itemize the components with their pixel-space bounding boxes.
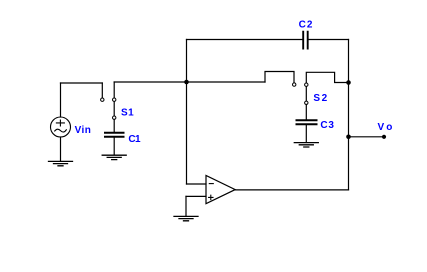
ground under C1 — [102, 155, 126, 159]
switch S2 bottom terminal circle — [305, 101, 308, 104]
ground under Vin — [49, 161, 73, 165]
wire S2 left throw jog — [265, 72, 294, 83]
switch S1 top terminal circle — [113, 98, 116, 101]
voltage source Vin plus sign — [56, 120, 64, 126]
wire left rail to op-amp inverting input — [186, 40, 188, 185]
capacitor C2 plates — [303, 32, 308, 49]
wire non-inverting input to ground — [185, 196, 187, 216]
wire C1 to ground — [113, 138, 115, 155]
wire S1 top stub — [113, 82, 115, 98]
op-amp minus sign — [209, 183, 213, 185]
svg-text:Vo: Vo — [378, 122, 393, 133]
switch S1 left throw terminal circle — [101, 98, 104, 101]
wire Vin top lead up — [60, 83, 62, 117]
junction dot S2 to right rail — [346, 80, 351, 85]
capacitor C3 plates — [297, 120, 317, 124]
svg-text:C3: C3 — [320, 120, 334, 131]
wire S2 pole to right rail jog — [306, 72, 348, 83]
wire non-inverting input — [186, 195, 206, 197]
wire Vin bottom lead — [60, 137, 62, 161]
op-amp plus sign — [209, 195, 213, 199]
voltage source Vin sine wave — [55, 129, 67, 132]
svg-text:Vin: Vin — [75, 125, 91, 136]
wire right rail down to op-amp output — [348, 40, 350, 190]
wire C3 to ground — [305, 125, 307, 142]
switch S1 bottom terminal circle — [113, 116, 116, 119]
junction dot output node to Vo — [346, 135, 351, 140]
ground under op-amp — [174, 216, 198, 220]
terminal dot Vo — [382, 135, 386, 139]
wire S1 to C1 — [113, 119, 115, 131]
wire top rail right segment from C2 — [308, 39, 348, 41]
wire top rail left segment to C2 — [187, 39, 303, 41]
wire inverting input — [187, 183, 207, 185]
wire output node to Vo terminal — [349, 136, 385, 138]
svg-text:C2: C2 — [299, 19, 313, 30]
switch S1 blade between terminals — [113, 101, 115, 116]
wire horizontal from S1 through node to S2 throw — [114, 81, 265, 83]
wire S1 left throw drop — [101, 83, 103, 98]
wire Vin to S1 left throw horizontal — [61, 82, 103, 84]
svg-text:C1: C1 — [128, 134, 141, 145]
voltage source Vin body circle — [51, 117, 71, 137]
svg-text:S1: S1 — [121, 108, 134, 119]
junction dot at inverting input node — [184, 80, 189, 85]
svg-text:S2: S2 — [313, 93, 327, 104]
wire S2 to C3 — [305, 105, 307, 120]
switch S2 blade between terminals — [305, 86, 307, 101]
switch S2 left throw terminal circle — [293, 83, 296, 86]
op-amp U1 triangle — [206, 175, 235, 203]
ground under C3 — [294, 143, 318, 147]
wire op-amp output to right rail — [235, 189, 348, 191]
capacitor C1 plates — [105, 133, 124, 137]
switch S2 top terminal circle — [305, 83, 308, 86]
